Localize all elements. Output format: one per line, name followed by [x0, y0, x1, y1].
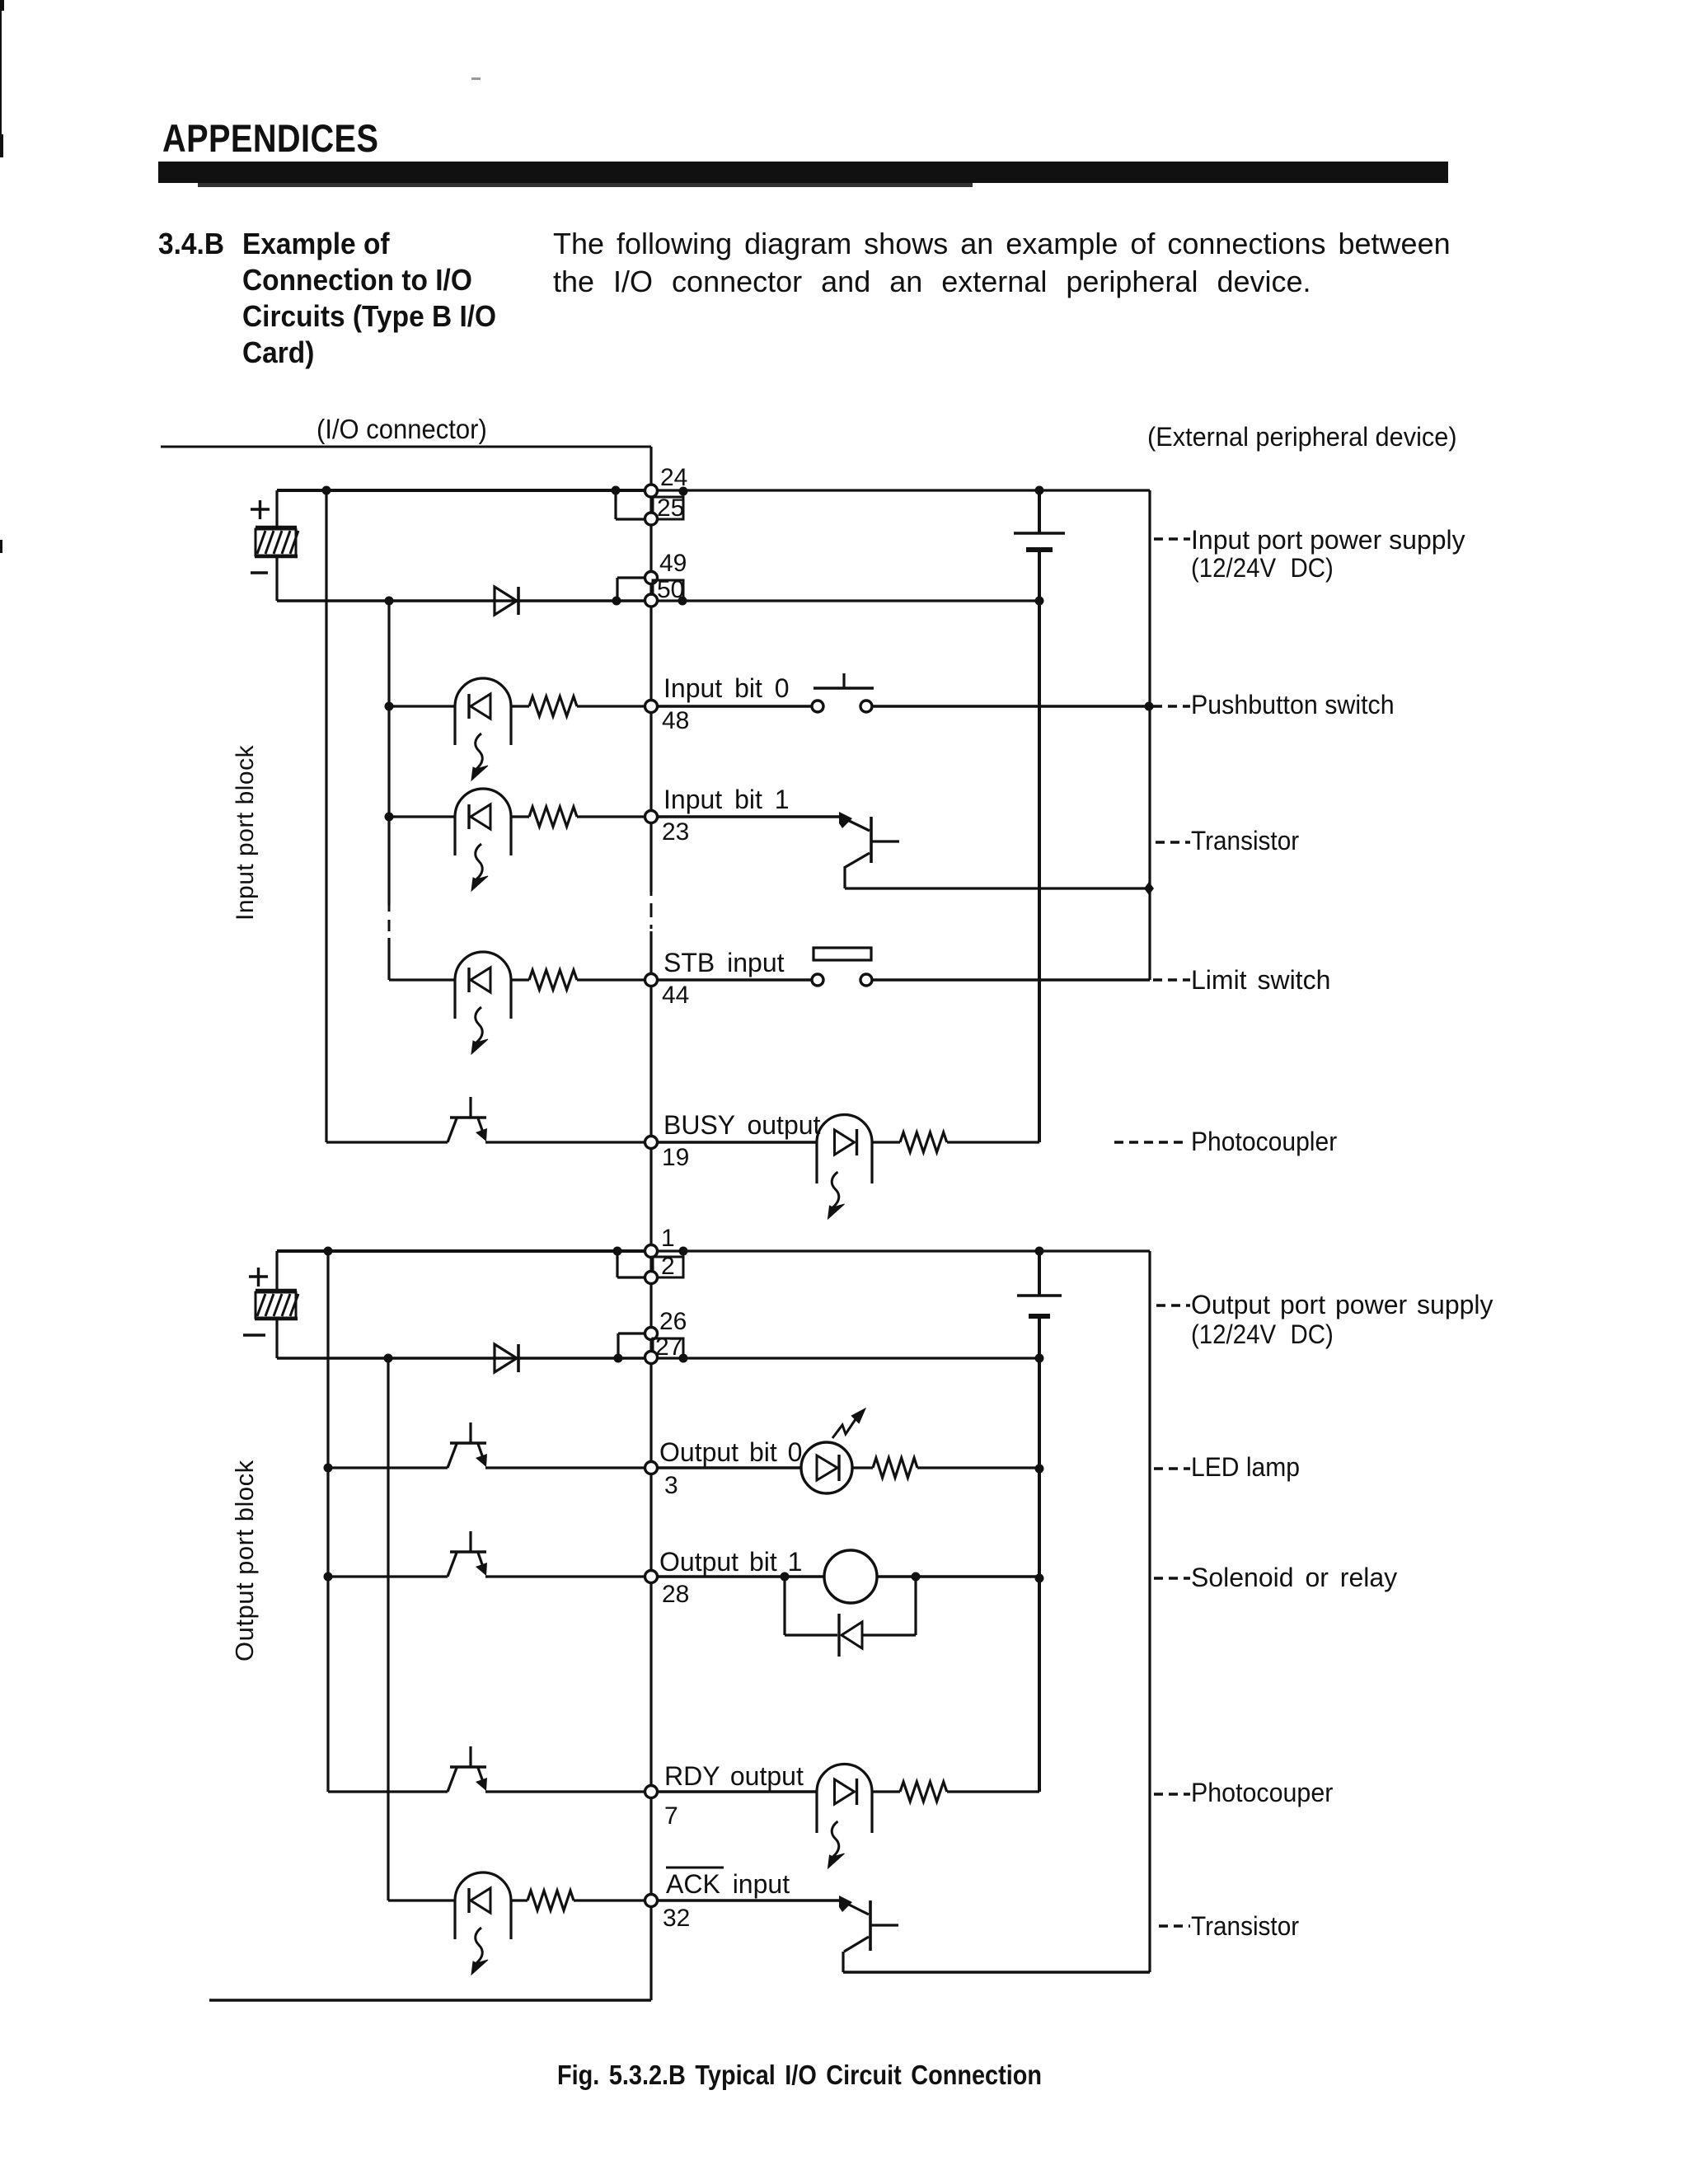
pin 7 [645, 1786, 658, 1798]
pin 27 label box [653, 1338, 688, 1363]
input supply - polarity mark [251, 571, 268, 574]
jumper pin1-pin2 [613, 1247, 646, 1278]
wire R4 to ext battery line [947, 1141, 1039, 1143]
pin 50 label [657, 576, 684, 603]
diode D2 on output - rail [495, 1344, 518, 1372]
wire pin 7 to photocoupler PC5 [657, 1790, 817, 1793]
transistor Q6 (external NPN, ACK) [839, 1896, 898, 1952]
svg-text:49: 49 [659, 550, 687, 577]
flyback diode D3 [839, 1614, 862, 1657]
wire STB row (left) [389, 978, 455, 981]
svg-text:Example of: Example of [242, 228, 390, 260]
svg-text:Limit switch: Limit switch [1191, 965, 1330, 995]
label Photocouper [1191, 1778, 1333, 1807]
svg-text:32: 32 [663, 1905, 690, 1932]
LED lamp LD1 [801, 1442, 852, 1493]
pin 27 [645, 1352, 658, 1364]
node ext battery + (input) [1035, 486, 1044, 495]
label BUSY output [663, 1110, 821, 1140]
svg-text:Output port power supply: Output port power supply [1191, 1290, 1493, 1319]
svg-text:26: 26 [659, 1308, 687, 1335]
section heading line 2 [242, 265, 472, 297]
wire Q5 to pin 7 [485, 1790, 645, 1793]
svg-text:(External peripheral device): (External peripheral device) [1147, 422, 1457, 452]
svg-text:the I/O connector and an exter: the I/O connector and an external periph… [553, 265, 1311, 298]
wire R3 to pin 44 [577, 978, 645, 981]
svg-text:STB input: STB input [663, 948, 785, 977]
output supply + polarity mark [249, 1268, 268, 1286]
jumper pin49-pin50 [612, 578, 646, 606]
wire R6 to ext battery line [947, 1790, 1039, 1793]
flyback diode D3 loop [785, 1577, 916, 1635]
pin 48 [645, 701, 658, 713]
label LED lamp [1191, 1452, 1300, 1482]
figure caption [557, 2060, 1042, 2090]
resistor R5 [873, 1458, 917, 1478]
dash leader Output port power supply [1156, 1304, 1190, 1306]
node ext battery + (output) [1035, 1247, 1044, 1256]
input external battery (12/24V) [1014, 490, 1065, 1142]
svg-text:(I/O connector): (I/O connector) [316, 414, 487, 444]
pin 25 [645, 513, 658, 525]
resistor R2 [529, 807, 577, 827]
dash leader LED lamp [1154, 1467, 1190, 1469]
wire PC6 to R7 [511, 1899, 527, 1901]
pin 1 label [661, 1225, 675, 1252]
intro paragraph line 1 [553, 227, 1451, 260]
wire limit switch to right rail [872, 978, 1150, 982]
wire Q4 to pin 28 [485, 1575, 645, 1577]
svg-text:Input bit 0: Input bit 0 [663, 673, 790, 703]
svg-text:Output bit 0: Output bit 0 [659, 1437, 802, 1467]
label Transistor (output) [1191, 1911, 1299, 1941]
label Transistor (input) [1191, 826, 1299, 855]
pin 23 [645, 811, 658, 823]
label Limit switch [1191, 965, 1330, 995]
pin 49 label [659, 550, 687, 577]
solenoid L1 (coil) [824, 1550, 877, 1603]
wire Q1 emitter to right rail [845, 882, 1154, 895]
pin 2 label [661, 1253, 675, 1280]
svg-text:44: 44 [662, 982, 689, 1009]
label Output port power supply [1191, 1290, 1493, 1319]
photocoupler PC5 (RDY, external) [817, 1765, 872, 1869]
transistor Q2 (BUSY driver) [448, 1097, 487, 1142]
svg-text:Solenoid or relay: Solenoid or relay [1191, 1563, 1397, 1592]
svg-text:ACK input: ACK input [666, 1869, 790, 1899]
wire Q1 emitter down [843, 867, 846, 888]
label (12/24V DC) input [1191, 553, 1334, 583]
label Photocoupler [1191, 1127, 1337, 1156]
pin 19 [645, 1137, 658, 1149]
input + supply rail external (wire) [651, 489, 1150, 491]
jumper pin24-pin25 [612, 486, 646, 520]
svg-text:BUSY output: BUSY output [663, 1110, 821, 1140]
output - supply rail external (wire) [657, 1357, 1039, 1359]
vertical label Output port block [230, 1460, 259, 1661]
pin 27 label [655, 1333, 682, 1361]
label Pushbutton switch [1191, 690, 1395, 719]
svg-text:Input port block: Input port block [232, 744, 259, 921]
wire R1 to pin 48 [577, 705, 645, 707]
svg-text:Pushbutton switch: Pushbutton switch [1191, 690, 1395, 719]
svg-text:2: 2 [661, 1253, 675, 1280]
label (External peripheral device) [1147, 422, 1457, 452]
pin 24 label [660, 464, 687, 491]
svg-text:27: 27 [655, 1333, 682, 1361]
diode D1 on input - rail [495, 587, 518, 615]
wire ACK row (left) [388, 1899, 455, 1901]
photocoupler PC2 (input bit 1) [455, 789, 511, 891]
node: + rail to left bus (output) [324, 1247, 333, 1256]
wire input bit 0 row (left) [385, 702, 456, 711]
scan artifact top-left edge [0, 0, 481, 553]
label (12/24V DC) output [1191, 1319, 1334, 1349]
pin 7 label [664, 1802, 678, 1830]
dash leader Pushbutton switch [1153, 705, 1190, 707]
dash leader Input port power supply [1154, 537, 1190, 540]
label RDY output [664, 1761, 804, 1791]
svg-text:48: 48 [662, 707, 689, 734]
svg-text:Photocouper: Photocouper [1191, 1778, 1333, 1807]
jumper pin26-pin27 [614, 1333, 646, 1363]
svg-text:Input bit 1: Input bit 1 [663, 785, 790, 814]
svg-text:Circuits (Type B I/O: Circuits (Type B I/O [242, 301, 496, 333]
dash leader Photocoupler [1114, 1141, 1188, 1143]
pin 2 [645, 1272, 658, 1284]
pin 50 label box [653, 580, 687, 606]
title underline bar [158, 162, 1448, 187]
pin 26 label [659, 1308, 687, 1335]
wire R7 to pin 32 [574, 1899, 645, 1901]
svg-text:1: 1 [661, 1225, 675, 1252]
wire pin 32 to transistor Q6 [657, 1899, 841, 1901]
svg-text:(12/24V DC): (12/24V DC) [1191, 1319, 1334, 1349]
label Solenoid or relay [1191, 1563, 1397, 1592]
wire pin 23 to transistor Q1 [657, 815, 841, 818]
transistor Q3 (output bit 0 driver) [448, 1422, 487, 1468]
pin 32 label [663, 1905, 690, 1932]
pin 44 label [662, 982, 689, 1009]
output + supply rail external (wire) [651, 1249, 1150, 1252]
dash leader Transistor (output) [1159, 1924, 1190, 1927]
dash leader Limit switch [1153, 978, 1190, 981]
pushbutton switch contacts [812, 701, 872, 712]
output - supply rail (wire) [277, 1357, 651, 1360]
svg-text:APPENDICES: APPENDICES [162, 118, 378, 161]
wire PC3 to R3 [511, 978, 529, 981]
label Input bit 1 [663, 785, 790, 814]
svg-text:Fig. 5.3.2.B Typical I/O Circu: Fig. 5.3.2.B Typical I/O Circuit Connect… [557, 2060, 1042, 2090]
wire Q3 to pin 3 [485, 1466, 645, 1469]
label (I/O connector) [316, 414, 487, 444]
transistor Q5 (RDY driver) [448, 1746, 487, 1792]
pin 44 [645, 974, 658, 987]
wire solenoid to ext battery line [877, 1572, 1044, 1583]
pin 28 [645, 1571, 658, 1583]
photocoupler PC6 (ACK input) [455, 1872, 511, 1975]
wire R2 to pin 23 [577, 815, 645, 818]
section heading line 4 [242, 337, 314, 369]
resistor R1 [529, 696, 577, 716]
svg-text:Input port power supply: Input port power supply [1191, 525, 1465, 555]
right rail (external common, output section) [1148, 1251, 1151, 1972]
output second bus (wire) [387, 1358, 389, 1900]
node ext battery - (output) [1035, 1354, 1044, 1363]
node solenoid left [781, 1572, 790, 1582]
svg-text:Transistor: Transistor [1191, 1911, 1299, 1941]
resistor R4 [900, 1132, 947, 1152]
pin 19 label [662, 1144, 689, 1171]
label Output bit 0 [659, 1437, 802, 1467]
input supply battery (left, hatched) [255, 490, 298, 601]
svg-text:28: 28 [662, 1581, 689, 1608]
svg-text:Connection to I/O: Connection to I/O [242, 265, 472, 297]
pin 3 [645, 1462, 658, 1474]
right rail (external common, input section) [1148, 490, 1151, 980]
wire pin 44 to limit switch [657, 978, 812, 981]
svg-text:7: 7 [664, 1802, 678, 1830]
svg-text:25: 25 [657, 494, 684, 522]
pin 23 label [662, 818, 689, 846]
dash leader Transistor (input) [1156, 841, 1190, 843]
transistor Q1 (external NPN) [839, 812, 899, 868]
wire LED to R5 [852, 1466, 873, 1469]
pin 50 [645, 594, 658, 607]
vertical label Input port block [232, 744, 259, 921]
node: + rail to left bus [322, 486, 331, 495]
wire pin 3 to LED lamp [657, 1466, 801, 1469]
section number 3.4.B [158, 228, 224, 260]
photocoupler PC1 (input bit 0) [455, 678, 511, 780]
svg-text:RDY output: RDY output [664, 1761, 804, 1791]
output supply battery (left, hatched) [255, 1251, 298, 1358]
dash leader Solenoid or relay [1154, 1577, 1190, 1579]
section heading line 1 [242, 228, 390, 260]
photocoupler PC3 (STB input) [455, 952, 511, 1054]
transistor Q4 (output bit 1 driver) [448, 1531, 487, 1577]
svg-text:Output bit 1: Output bit 1 [659, 1547, 802, 1577]
pin 25 label [657, 494, 684, 522]
pin 48 label [662, 707, 689, 734]
output supply - polarity mark [243, 1333, 265, 1336]
ACK overline [666, 1867, 724, 1869]
resistor R3 [529, 970, 577, 990]
pin 3 label [664, 1472, 678, 1499]
node ext battery - (input) [1035, 597, 1044, 606]
pin 28 label [662, 1581, 689, 1608]
label Output bit 1 [659, 1547, 802, 1577]
output external battery (12/24V) [1017, 1251, 1062, 1792]
limit switch contacts [812, 974, 872, 986]
pin 25 label box [653, 487, 688, 520]
wire pin 19 to photocoupler PC4 [657, 1141, 817, 1143]
I/O connector header wire [161, 446, 651, 448]
input + supply rail (wire) [277, 489, 651, 492]
svg-text:19: 19 [662, 1144, 689, 1171]
pin 26 [645, 1328, 658, 1340]
svg-text:The following diagram shows an: The following diagram shows an example o… [553, 227, 1451, 260]
wire BUSY row from left bus [326, 1141, 448, 1143]
wire pin 28 to solenoid [657, 1575, 824, 1577]
bottom return wire [209, 1999, 651, 2001]
node: - rail to second bus [385, 597, 394, 606]
input second bus (wire) [387, 601, 390, 980]
pushbutton actuator [814, 673, 874, 688]
svg-text:LED lamp: LED lamp [1191, 1452, 1300, 1482]
svg-text:3.4.B: 3.4.B [158, 228, 224, 260]
page title APPENDICES [162, 118, 378, 161]
wire PC2 to R2 [511, 815, 529, 818]
input - supply rail external (wire) [657, 599, 1039, 602]
pin 1 [645, 1245, 658, 1258]
label Input port power supply [1191, 525, 1465, 555]
svg-text:Transistor: Transistor [1191, 826, 1299, 855]
wire input bit 1 row (left) [385, 813, 456, 822]
dash leader Photocouper [1154, 1793, 1190, 1795]
resistor R7 [527, 1891, 574, 1910]
wire R5 to ext battery line (output) [917, 1465, 1044, 1474]
label ACK input [666, 1869, 790, 1899]
svg-text:(12/24V DC): (12/24V DC) [1191, 553, 1334, 583]
pin 32 [645, 1895, 658, 1907]
wire output bit 0 row from left bus [324, 1464, 448, 1473]
section heading line 3 [242, 301, 496, 333]
node: - rail to second bus (output) [384, 1354, 393, 1363]
svg-text:23: 23 [662, 818, 689, 846]
svg-text:3: 3 [664, 1472, 678, 1499]
wire PC1 to R1 [511, 705, 529, 707]
wire RDY row from left bus [328, 1790, 448, 1793]
svg-text:Card): Card) [242, 337, 314, 369]
input supply + polarity mark [251, 500, 270, 519]
wire PC4 to R4 [872, 1141, 900, 1143]
pin 2 label box [653, 1247, 688, 1278]
svg-text:Output port block: Output port block [230, 1460, 259, 1661]
wire output bit 1 row from left bus [324, 1572, 448, 1582]
wire pushbutton to right rail [872, 702, 1154, 711]
wire PC5 to R6 [872, 1790, 900, 1793]
input - supply rail (wire) [277, 599, 651, 602]
wire Q6 emitter down [842, 1952, 844, 1972]
input left bus (wire) [325, 490, 327, 1142]
resistor R6 [900, 1782, 947, 1802]
wire Q6 emitter to right rail (bottom) [843, 1971, 1150, 1973]
output + supply rail (wire) [277, 1249, 651, 1253]
I/O connector boundary line (center bus) [649, 447, 652, 2000]
photocoupler PC4 (BUSY, external) [817, 1115, 872, 1220]
label STB input [663, 948, 785, 977]
pin 49 [645, 572, 658, 584]
LED light rays [832, 1409, 865, 1438]
svg-text:50: 50 [657, 576, 684, 603]
pin 24 [645, 485, 658, 497]
wire Q2 to pin 19 [485, 1141, 645, 1143]
limit switch actuator plate [814, 948, 871, 960]
output left bus (wire) [326, 1251, 329, 1792]
wire pin 48 to pushbutton [657, 705, 812, 707]
svg-text:Photocoupler: Photocoupler [1191, 1127, 1337, 1156]
intro paragraph line 2 [553, 265, 1311, 298]
label Input bit 0 [663, 673, 790, 703]
